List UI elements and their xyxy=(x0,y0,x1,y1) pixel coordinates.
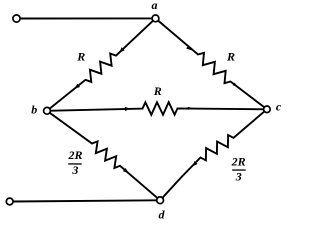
wire top: terminal to node a xyxy=(20,17,152,19)
arrow on a-c wire lower xyxy=(233,83,238,87)
svg-text:3: 3 xyxy=(235,169,242,183)
arrow on b-c wire right xyxy=(188,107,193,110)
resistor 2R/3 d-c xyxy=(160,109,267,200)
terminal bottom-left xyxy=(6,198,13,205)
svg-text:d: d xyxy=(159,207,166,221)
arrow on a-b wire upper xyxy=(119,47,125,52)
svg-text:R: R xyxy=(76,49,85,63)
resistor 2R/3 b-d xyxy=(47,111,160,201)
fraction bar right xyxy=(232,169,246,170)
svg-text:R: R xyxy=(153,84,162,98)
svg-text:a: a xyxy=(152,0,158,12)
arrow on b-d wire xyxy=(123,168,129,173)
node a xyxy=(152,15,159,22)
resistor R b-c xyxy=(47,102,267,115)
resistor R a-c xyxy=(156,18,267,109)
svg-text:2R: 2R xyxy=(231,154,246,168)
terminal top-left xyxy=(13,15,20,22)
resistor R a-b xyxy=(47,18,156,110)
node c xyxy=(264,106,271,113)
arrow on b-c wire left xyxy=(125,107,131,111)
arrow on c-d wire xyxy=(192,161,197,167)
node d xyxy=(157,197,164,204)
arrow on a-b wire lower xyxy=(74,84,80,89)
svg-text:b: b xyxy=(31,102,37,116)
svg-text:c: c xyxy=(276,100,282,114)
arrow on a-c wire xyxy=(186,45,192,50)
svg-text:R: R xyxy=(226,50,235,64)
fraction bar left xyxy=(68,163,82,164)
node b xyxy=(44,107,51,114)
svg-text:3: 3 xyxy=(71,163,78,177)
wire bottom: terminal to node d xyxy=(13,200,157,201)
svg-text:2R: 2R xyxy=(67,148,82,162)
